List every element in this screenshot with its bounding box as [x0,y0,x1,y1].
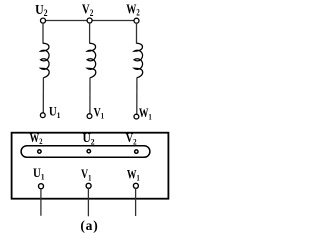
wire: coil W to terminal W1 [136,78,138,115]
coil U (winding) [41,43,50,77]
terminal U1 (box) [39,184,44,189]
wire: coil V to terminal V1 [89,78,91,114]
coil W (winding) [134,43,143,77]
wire: coil U to terminal U1 [42,78,44,113]
coil V (winding) [87,43,96,77]
wire: U2 terminal to coil [42,23,44,44]
terminal W1 [134,114,139,119]
terminal U1 [40,113,45,118]
terminal U2 [41,18,46,23]
lead wire V1 [87,188,89,216]
terminal W2 [134,18,139,23]
terminal W1 (box) [133,183,138,188]
lead wire U1 [40,189,42,216]
shorting link bar [21,146,150,158]
terminal V1 [87,114,92,119]
terminal V2 [87,18,92,23]
wire: V2 terminal to coil [89,23,91,44]
terminal U2 (box) [87,150,90,153]
terminal V1 (box) [86,183,91,188]
terminal W2 (box) [38,150,41,153]
wire: W2 terminal to coil [136,23,138,44]
svg-text:(a): (a) [80,218,98,233]
terminal V2 (box) [135,150,138,153]
terminal box [12,133,169,199]
wire: top bus connecting U2 V2 W2 [43,20,137,22]
lead wire W1 [135,188,137,216]
